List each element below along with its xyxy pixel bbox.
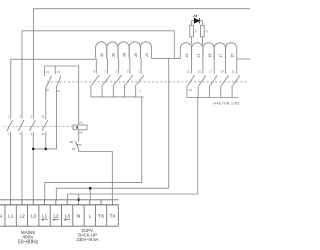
svg-text:L1: L1	[8, 214, 14, 219]
terminal strip clamp band	[0, 199, 118, 201]
relay K2 socket arch 1	[96, 42, 107, 59]
svg-text:22: 22	[46, 88, 50, 92]
terminal strip clamp dividers	[11, 200, 113, 205]
svg-text:5: 5	[31, 114, 33, 118]
main switch aux contact 31-32 blade	[42, 120, 48, 131]
relay K2 contact 7	[102, 58, 110, 97]
pin labels relay K3	[186, 70, 235, 74]
svg-text:26: 26	[134, 53, 138, 57]
wire aux contact lower	[45, 132, 47, 149]
pin labels contactor	[46, 70, 61, 93]
wire pole1 to terminal L1	[10, 132, 12, 200]
svg-text:230V~/0.5A: 230V~/0.5A	[76, 237, 98, 242]
svg-text:6: 6	[31, 132, 33, 136]
svg-text:17: 17	[219, 54, 223, 58]
svg-text:2: 2	[139, 88, 141, 92]
output arrows under L1 L2 L3	[42, 219, 71, 221]
svg-text:9: 9	[93, 70, 95, 74]
junction node L line	[89, 187, 92, 190]
svg-text:4: 4	[19, 132, 21, 136]
relay K3 bus	[187, 97, 239, 99]
svg-text:MAINS: MAINS	[21, 230, 35, 235]
trip coil core mark	[76, 126, 78, 129]
relay K3 contact 17	[210, 59, 218, 98]
svg-text:15: 15	[198, 70, 202, 74]
junction node pole3	[32, 148, 35, 151]
relay K2 contact 5	[113, 58, 121, 97]
contact 21-22	[46, 76, 52, 120]
svg-text:R: R	[195, 30, 197, 34]
wire line3 L3 output to relay K3 bus	[68, 98, 198, 200]
wire L drop	[89, 188, 91, 200]
svg-text:1: 1	[138, 70, 140, 74]
terminal strip body	[0, 205, 118, 226]
contact 13-14	[55, 66, 61, 89]
svg-text:L2: L2	[53, 214, 59, 219]
wire line2 L2 output and L	[56, 188, 168, 200]
svg-text:19: 19	[220, 70, 224, 74]
svg-text:17: 17	[209, 70, 213, 74]
resistor R2	[201, 25, 205, 37]
LED circuit left arm	[191, 21, 193, 45]
terminal labels	[8, 214, 115, 219]
relay K2 contact 3	[125, 58, 133, 97]
relay K3 contact 13	[187, 59, 195, 98]
resistor R1	[190, 25, 194, 37]
svg-text:L3: L3	[65, 214, 71, 219]
svg-text:50~60Hz: 50~60Hz	[18, 240, 39, 246]
svg-text:24: 24	[145, 53, 149, 57]
relay K2 contact 9	[91, 58, 99, 97]
LED wire	[192, 20, 203, 22]
wire L2 feed to connector baseline	[22, 31, 174, 119]
dashed mechanical link relays	[47, 81, 248, 83]
relay K3 contact 15	[198, 59, 206, 98]
svg-text:15: 15	[230, 54, 234, 58]
main switch Q1 pole 1 blade	[7, 120, 13, 131]
relay K3 socket arch 2	[192, 43, 203, 59]
svg-text:1: 1	[8, 114, 10, 118]
svg-text:28: 28	[123, 53, 127, 57]
svg-text:A2: A2	[79, 131, 83, 135]
pin labels thermal	[70, 140, 76, 151]
LED H1	[193, 15, 199, 24]
relay K3 contact 21	[232, 59, 240, 98]
svg-text:23: 23	[185, 54, 189, 58]
svg-text:32: 32	[41, 132, 45, 136]
relay K3 socket arch 4	[214, 43, 225, 59]
svg-text:N: N	[77, 214, 80, 219]
wire node link 13/14 to poles	[33, 89, 56, 149]
svg-text:13: 13	[186, 70, 190, 74]
wire thermal to TX terminal	[79, 149, 113, 200]
svg-text:30: 30	[111, 53, 115, 57]
LED circuit right arm	[201, 21, 203, 45]
svg-text:H4E70B 1/8Z: H4E70B 1/8Z	[214, 102, 241, 106]
relay K2 socket arch 4	[129, 42, 140, 59]
svg-text:19: 19	[208, 54, 212, 58]
relay K2 socket arch 5	[140, 42, 151, 59]
socket pin numbers K2	[100, 53, 149, 57]
relay K3 socket arch 5	[226, 43, 237, 59]
svg-text:TX: TX	[110, 214, 116, 219]
trip coil box F1	[73, 125, 87, 130]
wire contactor frame to trip coil	[45, 66, 79, 125]
svg-text:R: R	[206, 30, 208, 34]
svg-text:21: 21	[46, 70, 50, 74]
svg-text:L1: L1	[42, 214, 48, 219]
relay K3 socket arch 1	[180, 43, 191, 59]
relay K2 contact 1	[136, 58, 144, 97]
pin labels relay K2	[93, 70, 140, 74]
svg-text:3: 3	[127, 70, 129, 74]
text MAINS	[18, 230, 39, 246]
svg-text:21: 21	[197, 54, 201, 58]
baseline between relay sockets	[152, 57, 181, 59]
junction node aux	[44, 148, 47, 151]
svg-text:14: 14	[57, 89, 61, 93]
baseline right of relay K3	[237, 58, 250, 60]
svg-text:2: 2	[8, 132, 10, 136]
wire baseline to line2	[168, 58, 170, 188]
socket pin numbers K3	[185, 54, 234, 58]
svg-text:L: L	[89, 214, 92, 219]
wire pole3 to terminal L3	[32, 132, 34, 200]
main switch Q1 pole 2 blade	[18, 120, 24, 131]
wire pole2 to terminal L2	[21, 132, 23, 200]
wire L1 feed to relay socket	[11, 59, 96, 118]
svg-text:98: 98	[72, 147, 76, 151]
terminal strip X1	[0, 200, 118, 226]
thermal contact 96-98	[75, 130, 81, 149]
svg-text:L2: L2	[20, 214, 26, 219]
wire bus K2 to terminal L1 output	[45, 97, 142, 200]
svg-text:31: 31	[41, 114, 45, 118]
text SUPV	[76, 228, 98, 242]
svg-text:3: 3	[19, 114, 21, 118]
svg-text:L3: L3	[31, 214, 37, 219]
pin labels main switch	[8, 114, 45, 135]
wire L3 top feed to right edge	[33, 9, 250, 119]
wire N drop	[78, 194, 80, 200]
svg-text:5: 5	[116, 70, 118, 74]
svg-text:N: N	[0, 214, 2, 219]
svg-text:32: 32	[100, 53, 104, 57]
terminal cell dividers	[5, 205, 107, 226]
junction node N	[77, 198, 80, 201]
svg-text:TX: TX	[98, 214, 104, 219]
relay K2 socket arch 2	[107, 42, 118, 59]
dashed mechanical link main switch	[4, 126, 74, 128]
relay K3 contact 19	[221, 59, 229, 98]
svg-text:14: 14	[189, 88, 193, 92]
relay K3 socket arch 3	[203, 43, 214, 59]
main switch Q1 pole 3 blade	[30, 120, 36, 131]
relay K2 bus	[91, 96, 144, 98]
svg-text:96: 96	[70, 140, 74, 144]
relay K2 socket arch 3	[118, 42, 129, 59]
svg-text:7: 7	[104, 70, 106, 74]
svg-text:A1: A1	[80, 121, 84, 125]
svg-text:13: 13	[57, 70, 61, 74]
svg-text:21: 21	[232, 70, 236, 74]
